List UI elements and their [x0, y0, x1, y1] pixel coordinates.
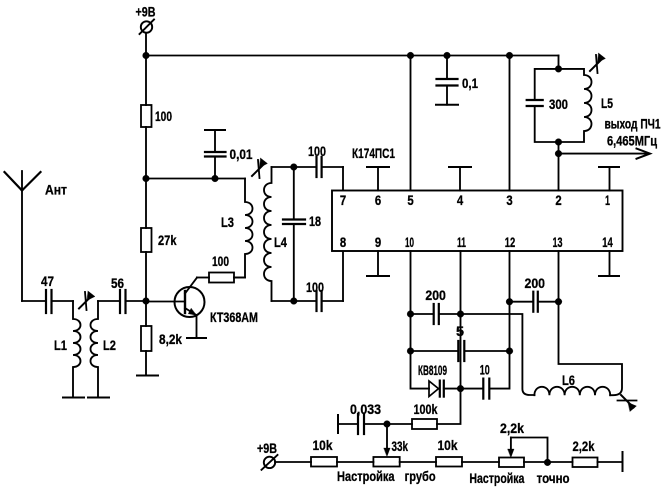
svg-text:10k: 10k — [438, 437, 458, 453]
svg-text:18: 18 — [309, 213, 321, 229]
inductor L6 — [534, 372, 610, 395]
node pin 3 on rail — [506, 52, 513, 59]
wire bias node to L3 — [146, 178, 245, 180]
ground under L2 — [88, 397, 109, 399]
capacitor 100 (to pin 7) — [294, 143, 343, 177]
resistor 10k (left) — [311, 437, 337, 467]
node pin 12 / C200 right — [506, 298, 513, 305]
node L4 bottom / C18 — [290, 298, 297, 305]
node pin10 / C200 left — [407, 311, 414, 318]
node pin 11 / C200 — [457, 311, 464, 318]
resistor 100 (supply) — [141, 56, 172, 179]
svg-text:10: 10 — [405, 234, 414, 250]
node pin10 / C5 — [407, 348, 414, 355]
wire pin 12 down — [491, 251, 510, 389]
wire rail corner down to L5 tank — [558, 56, 560, 69]
wire pin 2 — [558, 154, 560, 191]
svg-text:33k: 33k — [392, 438, 409, 454]
svg-text:8: 8 — [340, 234, 346, 250]
svg-text:5: 5 — [456, 323, 464, 339]
resistor 100 (collector) — [197, 253, 245, 283]
inductor L4 — [264, 167, 287, 301]
svg-text:точно: точно — [537, 470, 570, 486]
svg-text:56: 56 — [111, 275, 124, 291]
wire pin 11 down — [460, 251, 462, 389]
svg-text:100k: 100k — [414, 401, 438, 417]
wire pin 8 — [342, 251, 344, 301]
IC U1 K174PS1 — [332, 145, 623, 251]
node bias junction — [143, 175, 150, 182]
resistor 27k — [141, 179, 177, 302]
svg-text:+9В: +9В — [136, 4, 156, 20]
svg-text:L2: L2 — [103, 337, 116, 353]
wire +9V terminal to rail — [145, 33, 147, 56]
ground under emitter — [187, 337, 206, 339]
svg-text:6,465МГц: 6,465МГц — [607, 133, 657, 149]
svg-text:+9В: +9В — [257, 440, 277, 456]
wire pin 3 to rail — [509, 56, 511, 191]
ground stub pin 9 — [367, 251, 389, 276]
svg-text:100: 100 — [308, 143, 326, 159]
wire L4 bottom to node — [272, 300, 294, 302]
svg-text:L3: L3 — [221, 214, 234, 230]
svg-text:грубо: грубо — [405, 468, 436, 484]
svg-text:L1: L1 — [54, 337, 67, 353]
svg-text:12: 12 — [505, 234, 516, 250]
svg-text:0,01: 0,01 — [230, 146, 253, 162]
svg-text:9: 9 — [375, 234, 381, 250]
svg-text:КВ8109: КВ8109 — [418, 362, 447, 378]
ground under L1 — [63, 397, 84, 399]
label nastroyka tochno — [469, 470, 569, 486]
potentiometer 33k — [373, 438, 408, 467]
svg-text:Ант: Ант — [45, 182, 67, 198]
svg-text:100: 100 — [155, 108, 172, 124]
capacitor 56 — [98, 275, 146, 313]
svg-text:0,033: 0,033 — [350, 401, 381, 417]
svg-text:L4: L4 — [274, 234, 287, 250]
node top-left rail junction — [143, 52, 150, 59]
wire C200 row to L6 left branch — [461, 314, 535, 395]
capacitor 5 — [411, 323, 510, 361]
node L4 top / C18 — [290, 164, 297, 171]
capacitor 0,1 — [437, 56, 479, 105]
svg-text:КТ368АМ: КТ368АМ — [210, 309, 258, 325]
node L5 tank bottom — [555, 139, 562, 146]
resistor 10k (right) — [436, 437, 462, 467]
capacitor 300 — [527, 69, 568, 142]
trimmer arrow L1/L2 — [79, 291, 95, 310]
svg-text:2: 2 — [555, 192, 561, 208]
varactor VD KV8109 — [418, 362, 461, 397]
node C0,1 on rail — [444, 52, 451, 59]
capacitor 200 (right) — [510, 275, 559, 312]
ground under 8,2k — [137, 375, 158, 377]
resistor 2,2k — [573, 438, 598, 467]
trimmer arrow L5 — [590, 53, 606, 73]
svg-text:100: 100 — [306, 279, 324, 295]
wiper wire to 33k pot — [384, 424, 390, 457]
node varactor cathode / pin 11 — [457, 385, 464, 392]
trimmer arrow L6 — [618, 395, 637, 412]
wire 10k to 33k pot — [337, 461, 373, 463]
wire top supply rail — [146, 55, 559, 57]
svg-text:4: 4 — [457, 192, 463, 208]
label nastroyka grubo — [337, 468, 436, 484]
svg-text:6: 6 — [375, 192, 381, 208]
svg-text:14: 14 — [602, 234, 613, 250]
svg-text:100: 100 — [212, 253, 229, 269]
resistor 100k — [387, 401, 438, 429]
svg-text:200: 200 — [425, 287, 446, 303]
node pin 5 on rail — [407, 52, 414, 59]
svg-text:27k: 27k — [158, 232, 177, 248]
trimmer arrow L3/L4 — [252, 158, 268, 178]
node pot wiper on rail — [544, 459, 551, 466]
wire 2,2k pot to 2,2k resistor — [524, 461, 573, 463]
inductor L3 — [221, 179, 253, 278]
svg-text:10k: 10k — [313, 437, 333, 453]
svg-text:8,2k: 8,2k — [159, 331, 182, 347]
potentiometer 2,2k — [499, 420, 548, 467]
resistor 8,2k — [141, 301, 182, 376]
wire +9V to 10k — [275, 461, 311, 463]
antenna Ant — [5, 171, 68, 301]
svg-text:выход ПЧ1: выход ПЧ1 — [605, 116, 661, 132]
svg-text:Настройка: Настройка — [469, 470, 524, 486]
output arrow vyhod PCh1 — [559, 116, 661, 159]
wire pin 13 to L6 right — [559, 251, 623, 395]
node 0,033 / 100k / wiper — [384, 421, 391, 428]
node L5 tank top — [555, 66, 562, 73]
capacitor 47 — [22, 273, 73, 313]
wire tank bottom to output tap — [558, 142, 560, 154]
svg-text:200: 200 — [525, 275, 546, 291]
transistor VT KT368AM — [175, 278, 259, 339]
ground stub pin 14 — [599, 251, 619, 276]
capacitor 100 (to pin 8) — [294, 279, 343, 311]
capacitor 0,01 — [205, 130, 253, 179]
svg-text:0,1: 0,1 — [462, 75, 478, 91]
svg-text:L6: L6 — [562, 372, 575, 388]
node C5 / pin 12 — [506, 348, 513, 355]
power terminal +9V (bottom) — [257, 440, 278, 470]
node base junction — [143, 298, 150, 305]
wire pin 5 to rail — [410, 56, 412, 191]
svg-text:11: 11 — [457, 234, 466, 250]
wire varactor node down to 100k — [437, 389, 461, 424]
svg-text:L5: L5 — [601, 95, 613, 111]
ground stub pin 4 — [449, 167, 471, 191]
svg-text:2,2k: 2,2k — [500, 420, 524, 436]
power terminal +9V (top) — [136, 4, 156, 35]
wire pin 7 — [342, 167, 344, 191]
svg-text:К174ПС1: К174ПС1 — [352, 145, 395, 161]
wire 2,2k to end terminal — [598, 461, 623, 463]
wire L4 top to node — [272, 166, 294, 168]
svg-text:10: 10 — [480, 362, 490, 378]
end terminal bar — [622, 452, 624, 471]
capacitor 18 — [283, 167, 321, 301]
wire base node to transistor — [146, 301, 185, 303]
inductor L5 — [559, 69, 614, 142]
node pin 13 / C200 right — [555, 298, 562, 305]
svg-text:5: 5 — [407, 192, 413, 208]
wire 33k to 10k — [400, 461, 436, 463]
svg-text:300: 300 — [549, 96, 568, 112]
capacitor 200 (left) — [411, 287, 461, 324]
svg-text:Настройка: Настройка — [337, 468, 395, 484]
ground stub pin 1 — [599, 167, 619, 191]
svg-text:1: 1 — [605, 192, 610, 208]
capacitor 10 — [461, 362, 490, 399]
inductor L2 — [91, 301, 117, 398]
svg-text:47: 47 — [41, 273, 54, 289]
capacitor 0,033 — [338, 401, 387, 434]
node C0,01 tap — [212, 175, 219, 182]
svg-text:3: 3 — [506, 192, 512, 208]
ground stub pin 6 — [367, 167, 389, 191]
svg-text:2,2k: 2,2k — [573, 438, 595, 454]
ground under C0,1 — [436, 104, 458, 106]
svg-text:13: 13 — [553, 234, 563, 250]
node output tap — [555, 150, 562, 157]
inductor L1 — [54, 301, 81, 398]
wire pin 10 down to varactor — [411, 251, 430, 389]
wire 10k to 2,2k pot — [462, 461, 499, 463]
svg-text:7: 7 — [340, 192, 346, 208]
